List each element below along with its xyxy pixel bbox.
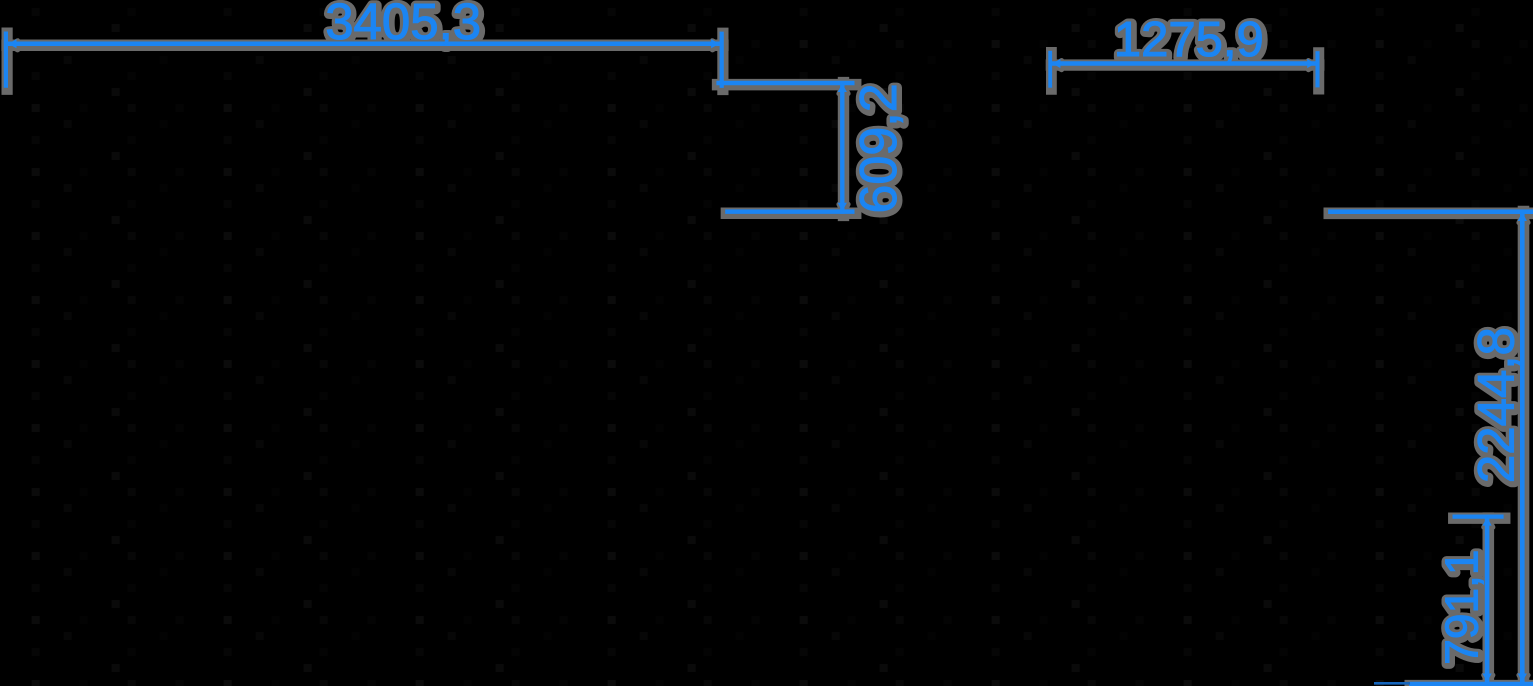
svg-text:609,2: 609,2 <box>850 83 908 213</box>
svg-text:791,1: 791,1 <box>1436 550 1488 665</box>
svg-text:2244,8: 2244,8 <box>1467 327 1524 483</box>
svg-text:3405,3: 3405,3 <box>325 0 481 50</box>
svg-text:1275,9: 1275,9 <box>1114 13 1264 67</box>
